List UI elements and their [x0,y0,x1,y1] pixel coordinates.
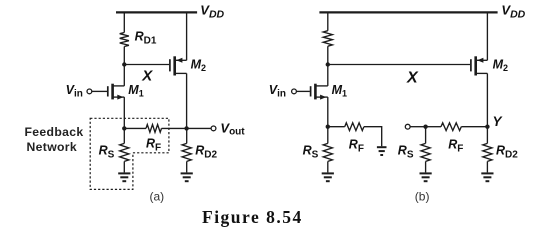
wire [296,90,310,92]
resistor RF2 (b) [441,123,461,131]
wire [486,73,488,126]
wire [425,127,427,144]
wire [124,127,146,129]
wire [123,128,125,143]
open terminal (b) [405,124,410,129]
feedback network dashed box [90,118,169,189]
resistor RD2 (a) [182,143,191,161]
VDD rail (a) [116,11,197,13]
svg-text:(b): (b) [415,189,430,203]
wire [123,97,125,128]
wire [327,65,329,86]
wire [123,161,125,172]
wire [328,64,470,66]
wire [327,46,329,64]
wire [327,161,329,172]
svg-text:Feedback: Feedback [25,125,84,139]
transistor M1 (b) [310,86,312,96]
node B2 (b) [423,125,427,129]
wire [124,64,169,66]
svg-text:X: X [141,67,153,84]
VDD rail (b) [319,11,497,13]
ground under RD2 (b) [481,172,493,174]
resistor RD2 (b) [483,143,492,161]
wire [186,73,188,128]
resistor RS1 (b) [323,143,332,161]
wire [410,126,426,128]
resistor RS (a) [120,143,129,161]
node Vout (a) [184,126,188,130]
wire [187,127,211,129]
transistor M2 (a) [169,59,171,71]
resistor (b) drain [323,31,332,47]
input terminal Vin (b) [292,89,297,94]
wire [486,127,488,144]
wire [364,127,382,147]
wire [186,128,188,143]
output terminal Vout (a) [211,126,216,131]
wire [162,127,187,129]
resistor RS2 (b) [421,143,430,161]
node X (b) [326,62,330,66]
ground (a) under RS [118,172,130,174]
wire [461,126,487,128]
wire [92,90,107,92]
wire [425,161,427,172]
wire [327,97,329,127]
wire [327,127,329,144]
ground (a) under RD2 [181,172,193,174]
wire [327,12,329,30]
wire [123,47,125,65]
resistor RF1 (b) [345,123,364,131]
node X (a) [122,62,126,66]
svg-text:Figure 8.54: Figure 8.54 [202,207,303,227]
wire [123,12,125,32]
svg-text:X: X [406,69,419,86]
wire [186,161,188,172]
svg-text:(a): (a) [150,190,165,204]
ground under RS1 (b) [322,172,334,174]
wire [328,126,345,128]
node Y (b) [485,125,489,129]
transistor M1 (a) [107,86,109,96]
ground after RF1 (b) [377,146,387,148]
transistor M2 (b) [470,59,472,71]
svg-text:Network: Network [27,140,78,154]
resistor RF (a) [146,125,162,133]
wire [426,126,441,128]
node A (a) [122,126,126,130]
resistor RD1 [120,33,129,47]
node B1 (b) [326,125,330,129]
input terminal Vin (a) [87,89,92,94]
wire [486,161,488,172]
ground under RS2 (b) [420,172,432,174]
wire [123,65,125,86]
